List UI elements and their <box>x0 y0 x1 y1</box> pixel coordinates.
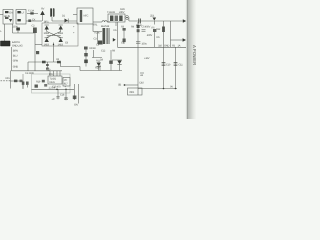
jumper JP1 <box>42 61 46 64</box>
wire mains to bridge lower <box>28 61 57 63</box>
transformer primary bars <box>103 28 105 44</box>
svg-text:GND: GND <box>13 66 18 69</box>
wire <box>137 47 139 95</box>
svg-text:RV: RV <box>41 8 45 11</box>
svg-text:SB: SB <box>118 84 122 87</box>
svg-text:1A: 1A <box>178 45 181 48</box>
wire <box>27 62 29 71</box>
relay K1 contact <box>36 51 39 54</box>
svg-text:AC IN: AC IN <box>4 15 10 18</box>
resistor R12 <box>162 27 165 33</box>
transistor Q1 <box>84 60 88 64</box>
cap C11 <box>174 62 178 65</box>
arrow <box>183 19 186 23</box>
wire <box>80 67 122 71</box>
junction <box>175 88 177 90</box>
misc top small text <box>28 19 31 22</box>
cap C14 <box>20 80 23 83</box>
bottom bus secondary <box>138 88 177 90</box>
wire mid right with arrow <box>171 39 184 41</box>
wire <box>170 21 172 47</box>
wire long top bus <box>129 18 183 22</box>
wire <box>163 21 165 47</box>
wire dashed mains <box>1 80 11 82</box>
svg-text:+C: +C <box>52 98 55 101</box>
wire <box>163 47 165 88</box>
connector P1 contacts <box>5 11 9 13</box>
wire <box>51 17 53 21</box>
diode D2 <box>45 26 49 30</box>
filter cap CX2 <box>17 19 20 21</box>
wire <box>93 21 102 23</box>
svg-text:250V: 250V <box>13 26 19 29</box>
resistor R22 <box>44 84 47 87</box>
cap C4 <box>123 39 126 43</box>
resistor R8 <box>84 47 88 50</box>
svg-text:FB: FB <box>172 45 175 48</box>
wire <box>175 47 177 88</box>
reg box U5 <box>128 88 143 95</box>
control ic U3 <box>32 74 71 93</box>
wire <box>31 70 63 72</box>
svg-text:FAN: FAN <box>120 8 125 11</box>
junction <box>163 88 165 90</box>
wire <box>57 89 59 99</box>
svg-text:R2 47: R2 47 <box>95 32 102 35</box>
choke L3 <box>102 21 107 22</box>
svg-text:CX: CX <box>32 19 36 22</box>
cap C20 <box>46 68 49 70</box>
connector P1 box <box>3 10 13 25</box>
cap C16 <box>64 98 67 100</box>
wire <box>73 14 77 16</box>
svg-text:GRN: GRN <box>13 60 18 63</box>
diode D3 <box>59 26 63 30</box>
wire <box>65 89 67 100</box>
junction <box>56 89 58 91</box>
svg-text:NTC: NTC <box>84 15 89 18</box>
svg-text:TR1: TR1 <box>93 24 98 27</box>
earth triangle <box>9 19 12 22</box>
hv bus <box>118 46 187 48</box>
svg-text:F1 2A: F1 2A <box>28 10 34 13</box>
wire <box>99 65 101 71</box>
svg-text:400V: 400V <box>147 34 153 37</box>
strip edge line <box>186 0 189 119</box>
diode D4 <box>45 38 49 42</box>
svg-text:BRN: BRN <box>13 50 18 53</box>
cap C19 <box>46 64 49 66</box>
svg-text:GND: GND <box>164 45 169 48</box>
motor M1 symbol <box>125 16 129 20</box>
diode D8 <box>117 61 121 65</box>
stub <box>115 22 117 26</box>
wire <box>4 24 6 41</box>
connector P1 lower contact <box>5 17 9 19</box>
diode D5 <box>59 38 63 42</box>
opto U4 box <box>63 78 70 87</box>
resistor R13 <box>84 53 88 56</box>
wire <box>85 50 87 67</box>
resistor R17 <box>22 82 25 85</box>
wire <box>117 22 119 47</box>
filter cap CX1 <box>17 11 20 13</box>
cap C13 <box>110 50 112 71</box>
wire <box>35 44 42 46</box>
svg-text:+12V: +12V <box>144 57 150 60</box>
svg-text:100u: 100u <box>142 43 148 46</box>
inductor L2 coil <box>51 8 53 17</box>
wire <box>78 84 80 104</box>
wire <box>93 24 102 44</box>
cap C10 <box>162 62 166 65</box>
svg-text:T1 EI33: T1 EI33 <box>107 11 115 14</box>
cap C6 <box>137 29 140 32</box>
NTC box <box>77 8 93 24</box>
svg-text:REG: REG <box>50 81 55 84</box>
cap C15 <box>56 97 59 99</box>
svg-text:1N53: 1N53 <box>44 44 50 47</box>
wire bottom rail <box>32 88 75 90</box>
svg-text:R8 1K: R8 1K <box>90 47 97 50</box>
wire <box>13 24 35 33</box>
svg-text:A POWER: A POWER <box>192 45 197 65</box>
wire <box>137 22 139 47</box>
svg-text:1N53: 1N53 <box>58 44 64 47</box>
resistor R4 <box>137 25 140 28</box>
bridge cross wires <box>47 32 61 38</box>
svg-text:GND LUG: GND LUG <box>12 44 23 47</box>
wire <box>22 74 24 89</box>
wire <box>34 33 36 71</box>
shield bar <box>80 10 82 22</box>
wire step <box>61 62 81 67</box>
diode D1 on wire <box>52 20 77 22</box>
cap C17 <box>73 96 77 100</box>
svg-text:GN: GN <box>74 104 78 107</box>
wire <box>123 31 125 45</box>
resistor R16 <box>14 80 17 83</box>
svg-text:EE2519: EE2519 <box>101 25 110 28</box>
svg-text:ZD1: ZD1 <box>150 15 155 18</box>
terminal block TB1 <box>1 41 11 46</box>
wire bridge output <box>53 43 55 63</box>
wire <box>26 20 42 22</box>
line filter L1 box <box>16 10 26 25</box>
svg-text:0V: 0V <box>170 86 173 89</box>
wire <box>74 84 76 100</box>
cap C9 on bus <box>138 19 141 24</box>
svg-text:230V: 230V <box>119 11 125 14</box>
cap C6 polarized <box>136 42 140 44</box>
wire <box>10 71 12 89</box>
switch Q2 <box>98 41 103 45</box>
svg-text:+B: +B <box>140 74 143 77</box>
cap C1 <box>17 31 19 34</box>
resistor R21 <box>42 80 45 83</box>
wire <box>92 50 102 58</box>
svg-text:C15 470: C15 470 <box>52 86 61 89</box>
svg-text:C5 450V: C5 450V <box>142 26 151 29</box>
wire <box>42 15 44 21</box>
wire <box>125 84 139 86</box>
diode D7 <box>57 61 61 64</box>
wire <box>0 14 3 16</box>
zener ZD2 <box>97 63 101 67</box>
bridge rectifier BR1 box <box>42 23 78 46</box>
snub diode <box>113 38 116 42</box>
wire <box>11 47 13 71</box>
wire <box>47 62 49 68</box>
wire <box>12 70 31 72</box>
svg-text:7805: 7805 <box>129 91 135 94</box>
U3 pins top <box>50 71 60 76</box>
svg-text:0.1 250V: 0.1 250V <box>25 72 34 75</box>
resistor R18 <box>26 82 29 85</box>
svg-text:BR1: BR1 <box>44 21 49 24</box>
cap C2 <box>33 28 37 34</box>
svg-text:BLU: BLU <box>13 55 18 58</box>
svg-text:CN: CN <box>9 12 13 15</box>
